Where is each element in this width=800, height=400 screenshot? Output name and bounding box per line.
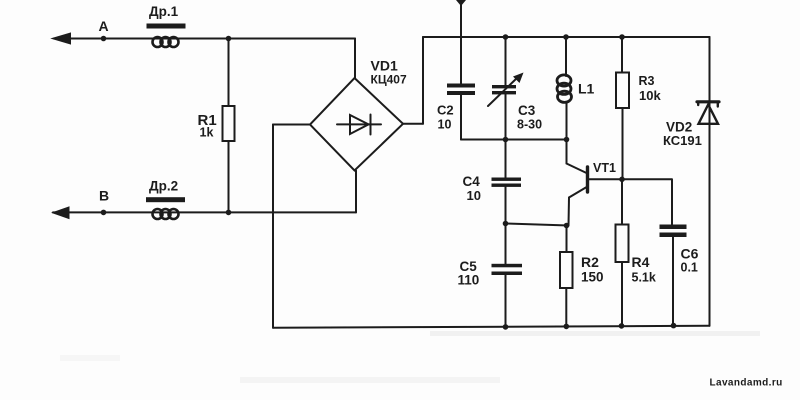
wire: right riser up to top bus (422, 37, 424, 124)
wire: B line corner up to bridge bottom (355, 171, 357, 213)
svg-text:КС191: КС191 (663, 133, 702, 148)
svg-text:10: 10 (467, 188, 481, 203)
inductor L1 top lead (565, 37, 567, 76)
svg-text:10: 10 (438, 118, 452, 132)
inductor Др.2 core bar (146, 197, 185, 202)
capacitor C5 bottom lead (505, 275, 507, 327)
svg-text:10k: 10k (639, 88, 661, 103)
svg-text:110: 110 (458, 273, 480, 288)
node dot L1 top (563, 34, 569, 40)
svg-text:R4: R4 (632, 254, 650, 270)
transistor VT1 base bar (586, 167, 589, 192)
wire: base to R3/R4 node (589, 178, 671, 180)
diode bridge VD1 diamond (310, 78, 403, 171)
svg-text:150: 150 (581, 270, 604, 285)
transistor VT1 emitter (569, 187, 588, 226)
svg-text:8-30: 8-30 (517, 117, 542, 131)
scan noise smudges (60, 331, 760, 383)
resistor R1 lead top (228, 39, 230, 107)
antenna tip (456, 0, 466, 6)
node dot R4 bottom on bus (619, 323, 625, 329)
svg-text:L1: L1 (578, 81, 595, 97)
node B dot (101, 210, 107, 216)
node dot emitter junction (564, 223, 570, 229)
svg-text:В: В (99, 188, 109, 204)
inductor L1 bottom lead (566, 102, 568, 140)
node junction at R1 top (226, 36, 232, 42)
node dot base/R3/R4 (619, 177, 625, 183)
resistor R2 body (560, 252, 573, 288)
svg-text:R3: R3 (639, 74, 655, 88)
node dot C3 bottom (503, 137, 509, 143)
node dot C4 bottom (503, 221, 509, 227)
svg-text:C4: C4 (463, 174, 481, 189)
capacitor C3 top lead (505, 37, 507, 85)
wire: bridge left vertex to left drop (273, 124, 310, 126)
node junction R1 bottom on B line (226, 210, 232, 216)
zener VD2 cathode bar (697, 100, 719, 103)
capacitor C3 plates (492, 85, 516, 88)
inductor Др.2 coil (153, 209, 179, 219)
inductor Др.1 coil (153, 37, 179, 47)
capacitor C2 bottom lead (460, 95, 462, 140)
resistor R2 top lead (566, 226, 568, 253)
inductor Др.1 core bar (147, 24, 186, 29)
wire: input A line (54, 38, 355, 40)
svg-text:Др.1: Др.1 (149, 4, 179, 19)
wire: A line corner down to bridge top (354, 39, 356, 79)
zener VD2 triangle (699, 105, 719, 124)
node dot C5 bottom on bus (503, 324, 509, 330)
node dot collector junction (564, 137, 570, 143)
svg-text:Lavandamd.ru: Lavandamd.ru (710, 378, 783, 389)
svg-text:Др.2: Др.2 (149, 179, 178, 194)
resistor R3 body (616, 73, 629, 109)
svg-text:R2: R2 (581, 254, 599, 270)
capacitor C4 bottom lead (505, 187, 507, 224)
resistor R4 top lead (621, 179, 623, 224)
arrow terminal A (52, 33, 71, 44)
svg-text:C6: C6 (681, 246, 699, 262)
capacitor C6 top lead (671, 179, 673, 224)
svg-text:5.1k: 5.1k (632, 271, 656, 285)
svg-text:A: A (99, 18, 109, 34)
resistor R4 body (616, 225, 629, 263)
inductor L1 coil (557, 75, 572, 103)
svg-text:0.1: 0.1 (681, 261, 698, 275)
diode symbol inside VD1 (337, 123, 381, 125)
resistor R4 bottom lead (621, 262, 623, 326)
capacitor C3 variable arrow (488, 77, 518, 106)
capacitor C5 plates (492, 264, 523, 268)
transistor VT1 collector (567, 140, 587, 174)
capacitor C5 top lead (505, 224, 507, 264)
wire: tank bottom bus (461, 139, 567, 141)
capacitor C6 bottom lead (672, 237, 674, 326)
node dot C3 top (503, 34, 509, 40)
svg-text:1k: 1k (200, 126, 214, 140)
capacitor C4 plates (492, 178, 522, 181)
node dot R2 bottom on bus (564, 324, 570, 330)
resistor R1 body (223, 106, 235, 141)
svg-text:C2: C2 (437, 103, 454, 118)
capacitor C4 top lead (505, 140, 507, 178)
svg-text:КЦ407: КЦ407 (371, 73, 407, 87)
wire: emitter horizontal (506, 224, 569, 226)
wire: top bus (423, 36, 710, 38)
arrow terminal B (51, 206, 70, 219)
resistor R3 bottom lead (622, 108, 624, 179)
wire: bridge right vertex to riser (403, 123, 423, 125)
node dot R3 top (619, 34, 625, 40)
svg-text:VD1: VD1 (371, 58, 398, 74)
node dot C6 bottom on bus (671, 323, 677, 329)
zener diode VD2 lead (709, 37, 711, 326)
node A dot (101, 36, 107, 42)
svg-text:C3: C3 (518, 103, 536, 118)
wire: input B line (53, 211, 356, 213)
resistor R2 bottom lead (565, 288, 567, 327)
wire: left vertical drop to bottom bus (272, 125, 274, 328)
resistor R3 top lead (621, 37, 623, 73)
antenna lead (460, 0, 462, 84)
capacitor C6 plates (660, 225, 687, 230)
wire: bottom bus (273, 326, 710, 328)
svg-text:VT1: VT1 (593, 161, 616, 175)
capacitor C3 bottom lead (505, 94, 507, 139)
resistor R1 lead bottom (228, 141, 230, 212)
capacitor C2 plates (447, 84, 475, 88)
